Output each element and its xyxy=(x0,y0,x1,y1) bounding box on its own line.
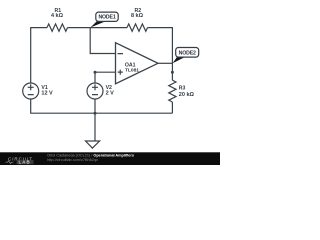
svg-text:TL081: TL081 xyxy=(125,68,139,74)
svg-text:2 V: 2 V xyxy=(106,90,115,96)
ground xyxy=(94,113,96,141)
wire top left vertical xyxy=(31,28,47,83)
op-amp OA1 xyxy=(116,43,159,84)
junction node at ground xyxy=(94,112,97,115)
resistor R1 xyxy=(47,24,68,31)
footer CircuitLab logo xyxy=(6,156,34,164)
wire R3 bottom xyxy=(171,102,173,113)
junction node at op-amp + input xyxy=(94,71,97,74)
svg-text:NODE1: NODE1 xyxy=(98,15,115,21)
svg-text:20 kΩ: 20 kΩ xyxy=(179,92,195,98)
node NODE2 flag xyxy=(173,48,199,64)
svg-text:http://circuitlab.com/c7Bh82qx: http://circuitlab.com/c7Bh82qx xyxy=(47,158,98,162)
voltage source V1 xyxy=(23,83,39,99)
node NODE1 flag xyxy=(90,12,118,27)
wire bottom rail xyxy=(31,99,173,113)
footer bar xyxy=(0,152,220,165)
svg-text:12 V: 12 V xyxy=(41,90,53,96)
wire top right corner down xyxy=(148,28,173,81)
svg-text:4 kΩ: 4 kΩ xyxy=(51,13,64,19)
svg-text:LAB: LAB xyxy=(19,160,31,165)
resistor R3 xyxy=(169,80,176,102)
svg-text:NODE2: NODE2 xyxy=(179,51,196,57)
wire top middle xyxy=(68,27,128,29)
svg-text:8 kΩ: 8 kΩ xyxy=(131,13,144,19)
wire node1 drop to inverting input xyxy=(90,28,115,54)
voltage source V2 xyxy=(87,83,103,99)
wire noninverting input xyxy=(95,72,116,83)
svg-text:R3: R3 xyxy=(179,85,186,91)
wire V2 bottom xyxy=(94,99,96,113)
wire op-amp output xyxy=(158,62,172,64)
svg-text:OA1: OA1 xyxy=(125,62,136,68)
resistor R2 xyxy=(127,24,148,31)
junction node at output/R3 xyxy=(171,71,174,74)
